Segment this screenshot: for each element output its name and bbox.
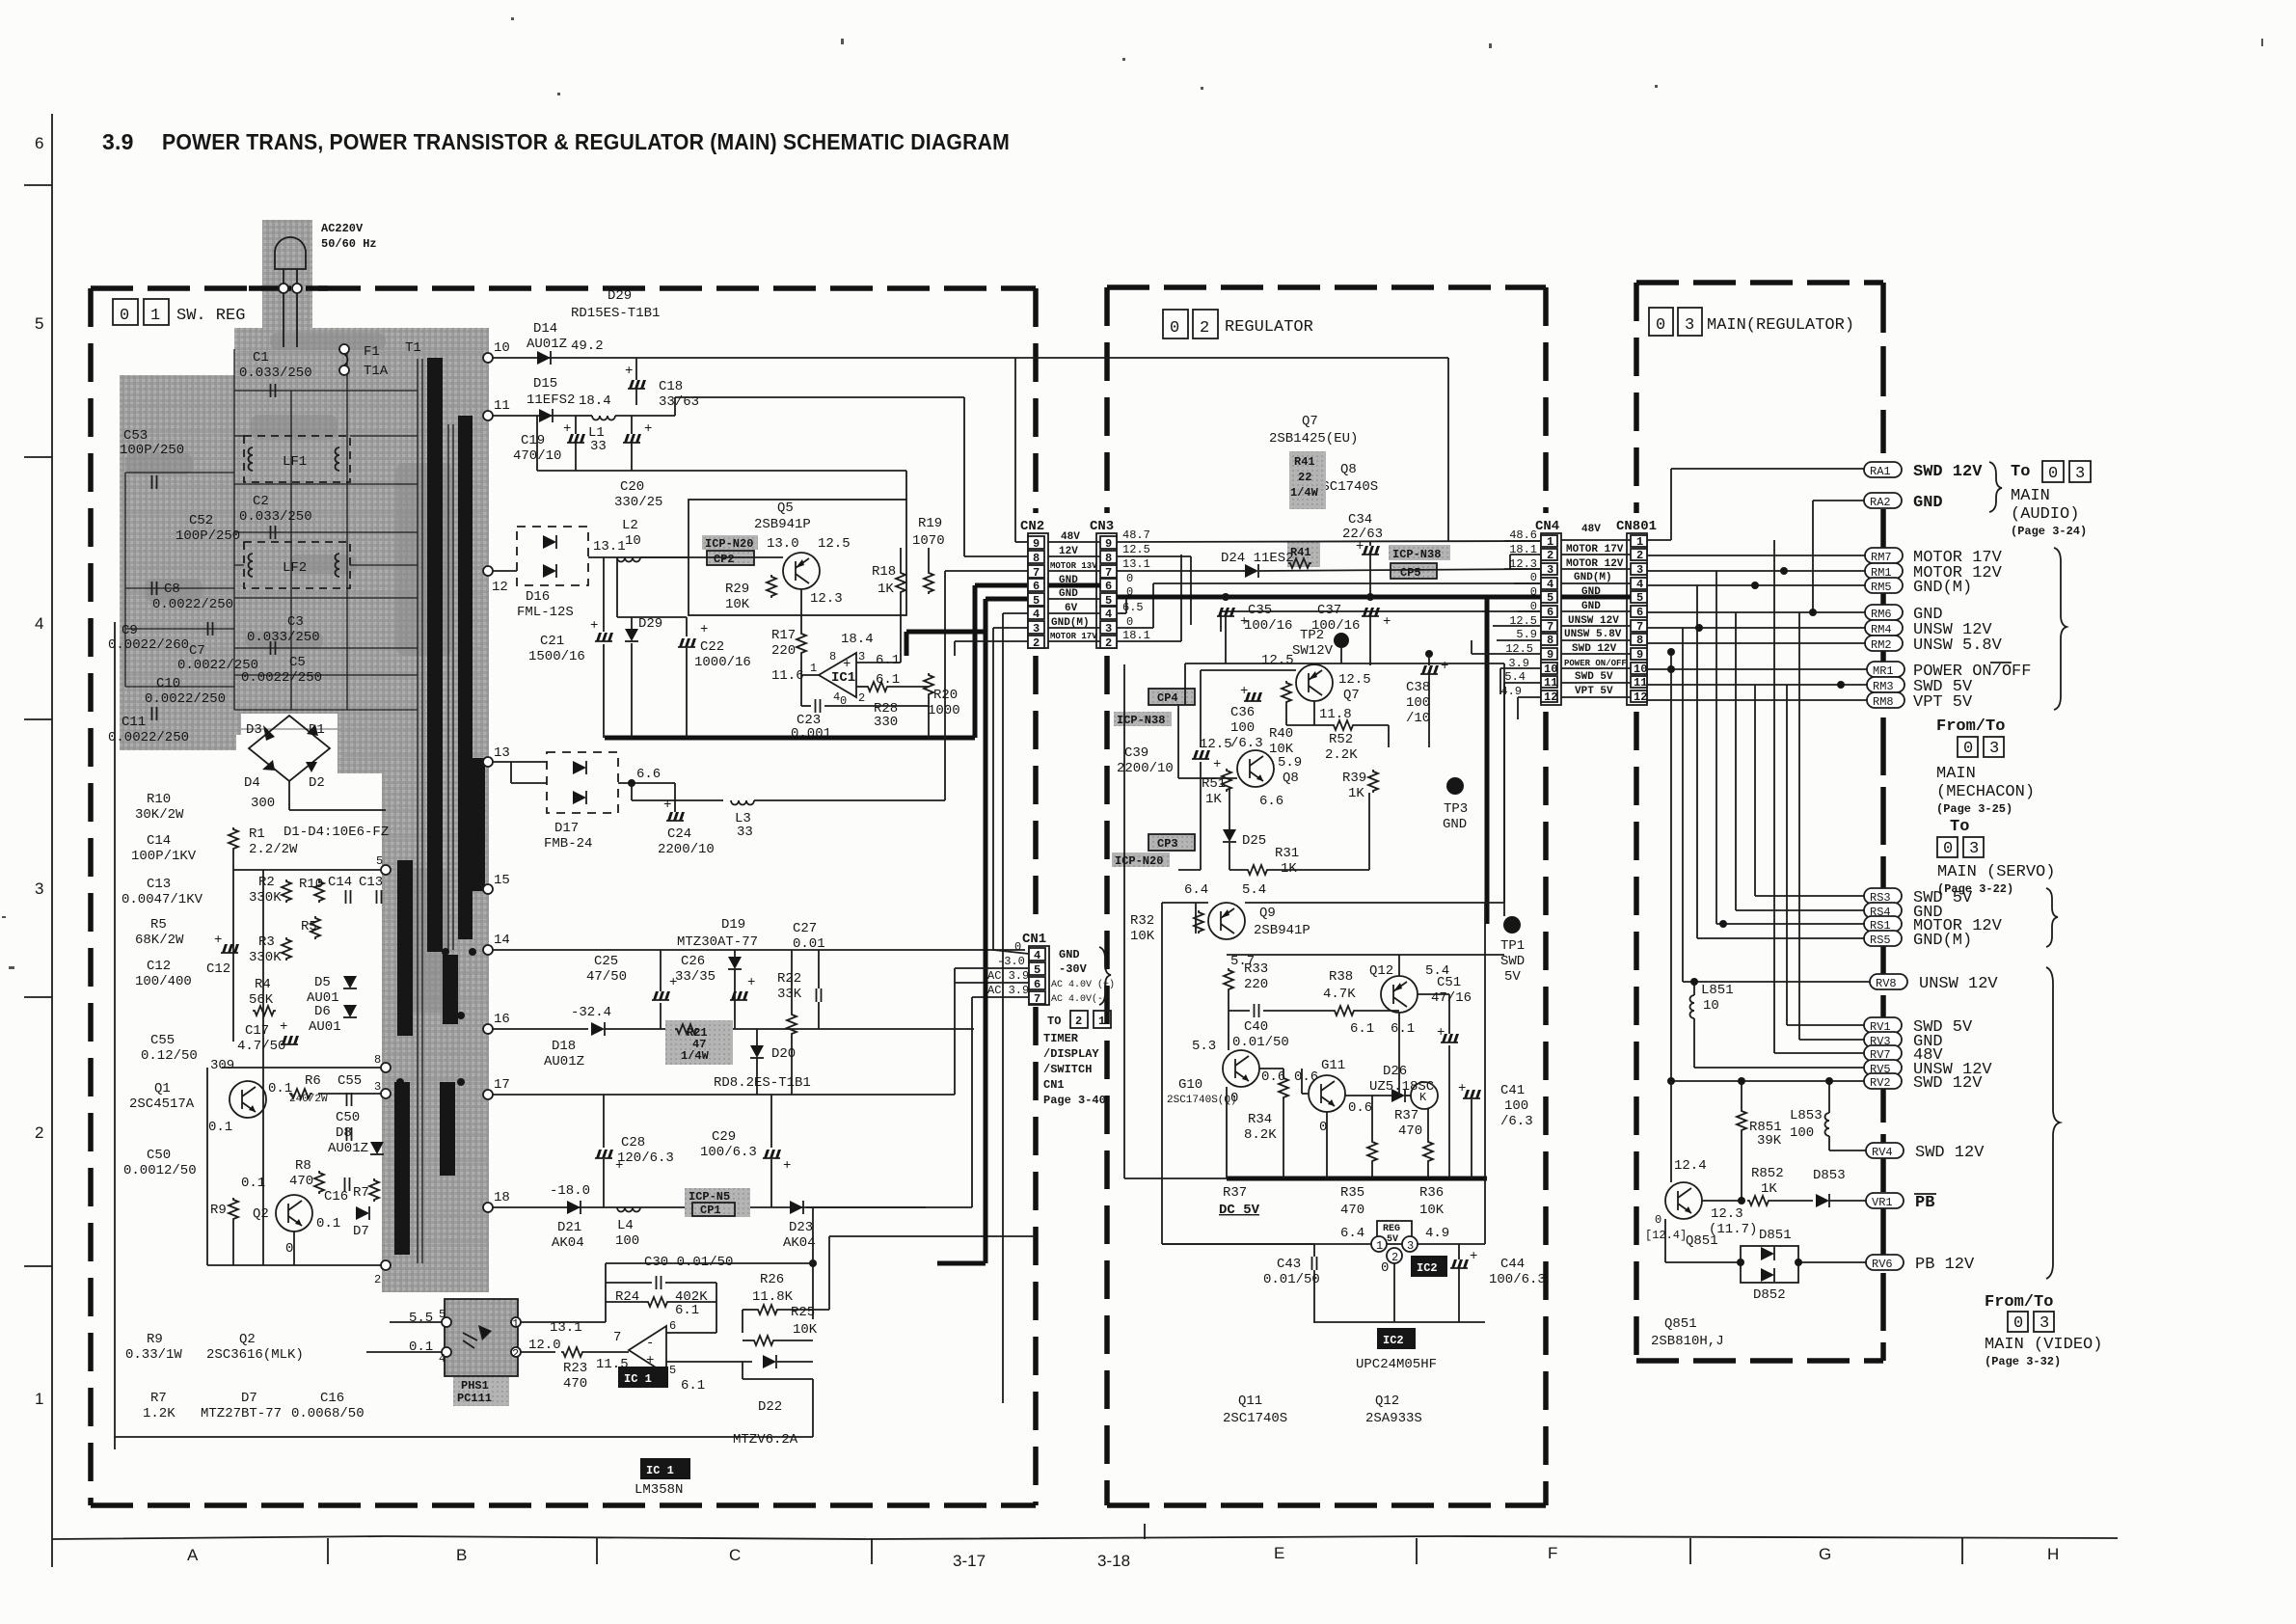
terminal RM5 bbox=[1865, 578, 1903, 593]
svg-text:-3.0: -3.0 bbox=[997, 955, 1025, 968]
svg-text:ICP-N5: ICP-N5 bbox=[689, 1190, 730, 1204]
svg-text:68K/2W: 68K/2W bbox=[135, 933, 184, 948]
IC 1 black tag bbox=[618, 1367, 668, 1388]
svg-text:D1: D1 bbox=[309, 722, 325, 738]
wires around C21 bbox=[603, 557, 605, 632]
svg-text:DC 5V: DC 5V bbox=[1219, 1203, 1260, 1218]
terminal RM2 bbox=[1865, 636, 1903, 651]
svg-text:6.4: 6.4 bbox=[1340, 1226, 1364, 1241]
secondary pin 11 bbox=[483, 411, 493, 420]
svg-text:R52: R52 bbox=[1329, 732, 1353, 747]
svg-text:0.01/50: 0.01/50 bbox=[1232, 1035, 1289, 1050]
svg-text:0: 0 bbox=[1126, 615, 1133, 629]
svg-text:2SA933S: 2SA933S bbox=[1365, 1411, 1422, 1426]
C24 2200/10 bbox=[666, 812, 685, 821]
svg-text:0: 0 bbox=[1381, 1260, 1389, 1276]
svg-text:2: 2 bbox=[1075, 1015, 1082, 1028]
R851 39K bbox=[1737, 1109, 1746, 1132]
terminal RS5 bbox=[1864, 931, 1902, 946]
svg-text:R31: R31 bbox=[1275, 846, 1299, 861]
svg-text:C40: C40 bbox=[1244, 1019, 1268, 1035]
LF2 line filter bbox=[244, 542, 350, 588]
svg-text:UNSW 5.8V: UNSW 5.8V bbox=[1913, 636, 2003, 655]
wire row11 drop bbox=[963, 397, 965, 556]
secondary pin 15 bbox=[483, 884, 493, 894]
C36 100/6.3 bbox=[1244, 692, 1262, 701]
svg-text:17: 17 bbox=[494, 1077, 510, 1093]
svg-text:2.2K: 2.2K bbox=[1325, 747, 1358, 763]
svg-text:5V: 5V bbox=[1504, 969, 1521, 985]
terminal MR1 bbox=[1867, 662, 1904, 677]
svg-text:Q2: Q2 bbox=[239, 1332, 256, 1347]
svg-text:C44: C44 bbox=[1500, 1257, 1525, 1272]
svg-text:REG: REG bbox=[1383, 1224, 1400, 1234]
svg-text:R9: R9 bbox=[147, 1332, 163, 1347]
svg-text:GND: GND bbox=[1913, 494, 1943, 512]
svg-text:3: 3 bbox=[374, 1080, 381, 1094]
svg-text:RM6: RM6 bbox=[1871, 608, 1892, 621]
svg-text:300: 300 bbox=[251, 796, 275, 811]
thick GND wires to CN2 bbox=[975, 583, 1028, 588]
wires Q851 bbox=[1670, 1081, 1672, 1182]
svg-text:UNSW 12V: UNSW 12V bbox=[1919, 975, 1998, 993]
svg-text:1/4W: 1/4W bbox=[681, 1049, 710, 1063]
svg-text:C13: C13 bbox=[359, 875, 383, 890]
svg-text:R37: R37 bbox=[1394, 1108, 1418, 1123]
svg-text:R852: R852 bbox=[1751, 1166, 1784, 1181]
svg-text:D7: D7 bbox=[241, 1391, 257, 1406]
svg-text:3.9: 3.9 bbox=[102, 129, 134, 154]
C17 4.7/50 bbox=[281, 1036, 299, 1044]
block02 top bus rows bbox=[1117, 541, 1541, 641]
brace RM group bbox=[2054, 548, 2066, 710]
svg-text:2SB810H,J: 2SB810H,J bbox=[1651, 1334, 1724, 1349]
brace RV group bbox=[2046, 967, 2060, 1279]
C55 capacitor bbox=[347, 1093, 352, 1106]
svg-text:12.5: 12.5 bbox=[1122, 543, 1150, 556]
svg-text:D2: D2 bbox=[309, 775, 325, 791]
svg-text:56K: 56K bbox=[249, 992, 274, 1008]
svg-text:LF1: LF1 bbox=[283, 454, 307, 470]
svg-text:-: - bbox=[646, 1336, 654, 1351]
wire MOTOR17 row bbox=[955, 640, 1028, 642]
svg-text:0: 0 bbox=[1170, 319, 1179, 338]
svg-text:6.4: 6.4 bbox=[1184, 882, 1208, 898]
svg-text:220: 220 bbox=[771, 643, 796, 659]
svg-text:L851: L851 bbox=[1701, 983, 1734, 998]
svg-text:2SC3616(MLK): 2SC3616(MLK) bbox=[206, 1347, 304, 1363]
svg-text:4: 4 bbox=[439, 1352, 446, 1366]
svg-text:G: G bbox=[1819, 1545, 1831, 1563]
svg-text:0.01/50: 0.01/50 bbox=[1263, 1272, 1320, 1287]
Q5 outline box wire bbox=[689, 500, 906, 615]
svg-text:7: 7 bbox=[1547, 620, 1553, 634]
opto coupler PHS1 PC111 bbox=[445, 1299, 518, 1376]
svg-text:30K/2W: 30K/2W bbox=[135, 807, 184, 823]
svg-text:0: 0 bbox=[1126, 572, 1133, 585]
bottom row wire 2 bbox=[207, 1264, 386, 1266]
svg-text:CP1: CP1 bbox=[700, 1204, 721, 1217]
svg-text:8: 8 bbox=[374, 1053, 381, 1067]
svg-text:CP4: CP4 bbox=[1157, 691, 1178, 705]
svg-text:6.1: 6.1 bbox=[675, 1303, 699, 1318]
svg-text:C52: C52 bbox=[189, 513, 213, 528]
svg-text:R29: R29 bbox=[725, 582, 749, 597]
svg-text:PB 12V: PB 12V bbox=[1915, 1256, 1975, 1274]
svg-text:2SC1740S: 2SC1740S bbox=[1223, 1411, 1287, 1426]
svg-text:10K: 10K bbox=[1419, 1203, 1445, 1218]
svg-text:5.4: 5.4 bbox=[1504, 670, 1526, 684]
C16 capacitor bbox=[345, 1177, 350, 1191]
transistor Q851 bbox=[1665, 1182, 1702, 1219]
svg-text:0: 0 bbox=[2048, 465, 2058, 483]
svg-text:3: 3 bbox=[1969, 840, 1979, 858]
left ruler tick 2/1 bbox=[24, 1265, 52, 1267]
svg-text:C8: C8 bbox=[164, 582, 180, 597]
svg-text:(MECHACON): (MECHACON) bbox=[1936, 783, 2035, 801]
svg-text:240/2W: 240/2W bbox=[289, 1094, 328, 1105]
feedback wire from row18 bbox=[806, 1206, 926, 1208]
svg-text:D3: D3 bbox=[246, 722, 262, 738]
R23 470 bbox=[561, 1347, 584, 1357]
R37 varistor bbox=[1411, 1082, 1438, 1109]
R3 330K bbox=[282, 937, 291, 961]
svg-text:+: + bbox=[1470, 1249, 1477, 1264]
svg-text:470: 470 bbox=[563, 1376, 587, 1392]
svg-text:12.0: 12.0 bbox=[528, 1338, 561, 1353]
svg-text:(AUDIO): (AUDIO) bbox=[2011, 505, 2079, 524]
net labels CN2-CN3 bbox=[1050, 531, 1097, 641]
svg-text:C37: C37 bbox=[1317, 603, 1341, 618]
R5 resistor bbox=[311, 916, 320, 939]
svg-text:220: 220 bbox=[1244, 977, 1268, 992]
svg-text:0.0022/260: 0.0022/260 bbox=[108, 637, 189, 653]
svg-text:D852: D852 bbox=[1753, 1287, 1786, 1303]
svg-text:TP1: TP1 bbox=[1500, 938, 1525, 954]
svg-text:0.0012/50: 0.0012/50 bbox=[123, 1163, 197, 1178]
svg-text:R7: R7 bbox=[353, 1185, 369, 1201]
svg-text:100/6.3: 100/6.3 bbox=[700, 1145, 757, 1160]
svg-text:MAIN (SERVO): MAIN (SERVO) bbox=[1937, 863, 2055, 881]
secondary pin 13 bbox=[483, 757, 493, 767]
D17 diode a bbox=[573, 761, 586, 774]
svg-text:48V: 48V bbox=[1581, 524, 1601, 535]
svg-text:1: 1 bbox=[1098, 1015, 1105, 1028]
svg-text:C7: C7 bbox=[189, 643, 205, 659]
svg-text:11: 11 bbox=[494, 398, 510, 414]
svg-text:5: 5 bbox=[439, 1308, 446, 1321]
brace RS group bbox=[2046, 888, 2058, 947]
transistor Q1 bbox=[230, 1081, 266, 1118]
terminal RM1 bbox=[1865, 563, 1903, 579]
svg-text:5: 5 bbox=[1636, 591, 1643, 605]
svg-text:D29: D29 bbox=[608, 288, 632, 304]
svg-text:PC111: PC111 bbox=[457, 1392, 492, 1405]
terminal RS4 bbox=[1864, 903, 1902, 918]
wire row18 bbox=[493, 1206, 972, 1208]
right side wire bundle verticals bbox=[1647, 469, 1870, 1081]
svg-text:MTZV6.2A: MTZV6.2A bbox=[733, 1432, 798, 1448]
D8 AU01Z bbox=[370, 1142, 384, 1154]
terminal RS3 bbox=[1864, 888, 1902, 904]
svg-text:1: 1 bbox=[1547, 535, 1553, 549]
svg-text:3: 3 bbox=[2075, 465, 2085, 483]
transistor Q10 bbox=[1223, 1050, 1259, 1087]
R34 8.2K bbox=[1279, 1076, 1288, 1099]
svg-text:1070: 1070 bbox=[912, 533, 945, 549]
svg-text:120/6.3: 120/6.3 bbox=[617, 1150, 674, 1166]
C12 capacitor bbox=[221, 944, 239, 953]
node row 15wire bbox=[233, 869, 386, 871]
svg-text:C1: C1 bbox=[253, 350, 269, 365]
svg-text:C13: C13 bbox=[147, 877, 171, 892]
svg-text:1K: 1K bbox=[1761, 1181, 1777, 1197]
transformer core bar B bbox=[458, 416, 473, 939]
bottom ruler tick A/B bbox=[327, 1538, 329, 1564]
halftone scan region: main slab bbox=[234, 328, 489, 735]
svg-text:Q7: Q7 bbox=[1343, 688, 1360, 703]
svg-text:1K: 1K bbox=[1205, 792, 1222, 807]
svg-text:IC2: IC2 bbox=[1417, 1261, 1438, 1275]
D25 zener bbox=[1223, 829, 1236, 842]
svg-text:C3: C3 bbox=[287, 614, 304, 630]
bottom bus regulator bbox=[1227, 1177, 1487, 1181]
svg-text:AU01Z: AU01Z bbox=[328, 1141, 368, 1156]
svg-text:C14: C14 bbox=[328, 875, 352, 890]
svg-text:C19: C19 bbox=[521, 433, 545, 448]
R7 resistor bbox=[369, 1178, 379, 1202]
wire row11 continues bbox=[674, 397, 676, 416]
svg-text:R18: R18 bbox=[872, 564, 896, 580]
svg-text:18.4: 18.4 bbox=[841, 632, 874, 647]
svg-text:16: 16 bbox=[494, 1012, 510, 1027]
wire row13 bbox=[493, 761, 547, 763]
svg-text:/6.3: /6.3 bbox=[1500, 1114, 1533, 1129]
svg-text:D19: D19 bbox=[721, 917, 745, 933]
svg-text:TIMER: TIMER bbox=[1043, 1032, 1079, 1045]
svg-text:100/400: 100/400 bbox=[135, 974, 192, 989]
svg-text:CN801: CN801 bbox=[1616, 519, 1657, 534]
thick bottom bus of SMPS bbox=[605, 736, 975, 741]
svg-text:R51: R51 bbox=[1202, 776, 1226, 792]
svg-text:7: 7 bbox=[613, 1330, 621, 1345]
svg-text:MAIN(REGULATOR): MAIN(REGULATOR) bbox=[1707, 316, 1854, 335]
svg-text:4.7K: 4.7K bbox=[1323, 987, 1356, 1002]
svg-text:6: 6 bbox=[1033, 580, 1040, 593]
svg-text:E: E bbox=[1274, 1544, 1284, 1562]
svg-text:470: 470 bbox=[1398, 1123, 1422, 1139]
svg-text:47/50: 47/50 bbox=[586, 969, 627, 985]
svg-text:F1: F1 bbox=[364, 344, 380, 360]
diode D1 bbox=[307, 724, 318, 736]
base row q8 bbox=[1178, 777, 1237, 779]
svg-text:RM5: RM5 bbox=[1871, 581, 1892, 594]
svg-text:5.5: 5.5 bbox=[409, 1311, 433, 1326]
svg-text:D17: D17 bbox=[554, 821, 579, 836]
svg-text:Q851: Q851 bbox=[1664, 1316, 1697, 1332]
svg-text:FML-12S: FML-12S bbox=[517, 605, 574, 620]
svg-text:4: 4 bbox=[1105, 608, 1112, 621]
left ruler tick 5/4 bbox=[24, 456, 52, 458]
transistor Q12 bbox=[1381, 976, 1418, 1013]
C5 capacitor bbox=[271, 641, 276, 655]
svg-text:+: + bbox=[590, 618, 598, 634]
svg-text:0.6: 0.6 bbox=[1348, 1100, 1372, 1116]
svg-text:1K: 1K bbox=[1348, 786, 1364, 801]
block 03 tag box 3 bbox=[1678, 308, 1702, 336]
R31 1K bbox=[1246, 865, 1269, 875]
svg-text:2SB941P: 2SB941P bbox=[1254, 923, 1310, 938]
brace To 03 MAIN AUDIO bbox=[1989, 462, 2002, 512]
svg-text:D4: D4 bbox=[244, 775, 260, 791]
svg-text:12.3: 12.3 bbox=[1711, 1206, 1743, 1222]
svg-text:TO: TO bbox=[1047, 1015, 1061, 1028]
svg-text:14: 14 bbox=[494, 933, 510, 948]
svg-text:10: 10 bbox=[1544, 663, 1557, 676]
svg-text:R25: R25 bbox=[791, 1305, 815, 1320]
svg-text:100/16: 100/16 bbox=[1244, 618, 1292, 634]
svg-text:R5: R5 bbox=[301, 919, 317, 934]
R8 470 bbox=[314, 1171, 324, 1194]
svg-text:MOTOR 17V: MOTOR 17V bbox=[1050, 632, 1097, 641]
svg-text:D21: D21 bbox=[557, 1220, 581, 1235]
svg-text:F: F bbox=[1548, 1544, 1557, 1562]
svg-text:+: + bbox=[563, 421, 571, 437]
svg-text:0: 0 bbox=[1656, 316, 1665, 335]
svg-text:0.12/50: 0.12/50 bbox=[141, 1048, 198, 1064]
svg-text:3: 3 bbox=[1033, 622, 1040, 636]
svg-text:R4: R4 bbox=[255, 977, 271, 992]
block 03 dashed border bbox=[1636, 280, 1883, 285]
C43 0.01/50 bbox=[1312, 1257, 1317, 1270]
svg-text:9: 9 bbox=[1033, 537, 1040, 551]
svg-text:RM3: RM3 bbox=[1873, 680, 1894, 693]
svg-text:4: 4 bbox=[1547, 578, 1553, 591]
svg-text:C55: C55 bbox=[338, 1073, 362, 1089]
wire CN1 pin4 row bbox=[993, 950, 1029, 954]
svg-text:C22: C22 bbox=[700, 639, 724, 655]
svg-text:R36: R36 bbox=[1419, 1185, 1444, 1201]
svg-text:0.1: 0.1 bbox=[208, 1120, 232, 1135]
left column wires block02 bbox=[1123, 664, 1125, 1178]
svg-text:/10: /10 bbox=[1406, 711, 1430, 726]
svg-text:1K: 1K bbox=[1281, 861, 1297, 877]
svg-text:D29: D29 bbox=[638, 616, 662, 632]
svg-text:IC 1: IC 1 bbox=[624, 1372, 652, 1386]
svg-text:13.1: 13.1 bbox=[593, 539, 626, 555]
svg-text:0.033/250: 0.033/250 bbox=[247, 630, 320, 645]
wire slab vertical column a bbox=[233, 349, 235, 710]
svg-text:0.0047/1KV: 0.0047/1KV bbox=[122, 892, 203, 907]
svg-text:0: 0 bbox=[285, 1241, 293, 1257]
svg-text:TP2: TP2 bbox=[1300, 628, 1324, 643]
svg-text:13.1: 13.1 bbox=[550, 1320, 582, 1336]
wires q11 row bbox=[1345, 1095, 1391, 1096]
svg-text:470: 470 bbox=[289, 1174, 313, 1189]
inductor L4 bbox=[617, 1207, 640, 1212]
svg-text:RM2: RM2 bbox=[1871, 638, 1892, 652]
svg-text:AC 3.9: AC 3.9 bbox=[987, 969, 1029, 983]
svg-text:A: A bbox=[187, 1546, 199, 1564]
svg-text:CN1: CN1 bbox=[1043, 1078, 1065, 1092]
svg-text:6: 6 bbox=[669, 1319, 676, 1333]
svg-text:330: 330 bbox=[874, 715, 898, 730]
svg-text:C26: C26 bbox=[681, 954, 705, 969]
svg-text:100: 100 bbox=[615, 1233, 639, 1249]
svg-text:0: 0 bbox=[120, 307, 129, 325]
svg-text:C12: C12 bbox=[147, 959, 171, 974]
svg-text:R32: R32 bbox=[1130, 913, 1154, 929]
svg-text:12.4: 12.4 bbox=[1674, 1158, 1707, 1174]
svg-text:C16: C16 bbox=[320, 1391, 344, 1406]
svg-text:RV4: RV4 bbox=[1872, 1146, 1893, 1159]
block 01 tag box 1 bbox=[144, 299, 169, 325]
transistor Q5 bbox=[783, 553, 820, 589]
svg-text:1500/16: 1500/16 bbox=[528, 649, 585, 664]
svg-text:MTZ27BT-77: MTZ27BT-77 bbox=[201, 1406, 282, 1421]
C23 0.001 bbox=[816, 699, 821, 713]
svg-text:3-17: 3-17 bbox=[953, 1552, 986, 1570]
svg-text:R17: R17 bbox=[771, 628, 796, 643]
svg-text:1: 1 bbox=[150, 307, 160, 325]
D16 diode a bbox=[543, 535, 556, 549]
svg-text:D23: D23 bbox=[789, 1220, 813, 1235]
svg-text:MAIN: MAIN bbox=[1936, 765, 1976, 783]
svg-text:+: + bbox=[1441, 659, 1448, 674]
svg-text:MAIN (VIDEO): MAIN (VIDEO) bbox=[1985, 1336, 2102, 1354]
svg-text:RM4: RM4 bbox=[1871, 623, 1892, 636]
terminal RS1 bbox=[1864, 916, 1902, 932]
svg-text:UNSW 5.8V: UNSW 5.8V bbox=[1564, 629, 1622, 640]
svg-text:C18: C18 bbox=[659, 379, 683, 394]
svg-text:Page 3-40: Page 3-40 bbox=[1043, 1094, 1106, 1107]
svg-text:8: 8 bbox=[1636, 634, 1643, 647]
svg-text:5.9: 5.9 bbox=[1278, 755, 1302, 771]
svg-text:C30 0.01/50: C30 0.01/50 bbox=[644, 1255, 733, 1270]
wires D851 group bbox=[1664, 1219, 1666, 1262]
svg-text:MOTOR 13V: MOTOR 13V bbox=[1050, 561, 1097, 571]
svg-text:+: + bbox=[625, 364, 633, 379]
halftone scan region: left slab bbox=[120, 375, 236, 750]
svg-text:VR1: VR1 bbox=[1872, 1196, 1893, 1209]
svg-text:6.1: 6.1 bbox=[681, 1378, 705, 1394]
svg-text:MAIN: MAIN bbox=[2011, 487, 2050, 505]
svg-text:C21: C21 bbox=[540, 634, 564, 649]
terminal RM6 bbox=[1865, 605, 1903, 620]
svg-text:+: + bbox=[783, 1158, 791, 1174]
svg-text:0.01: 0.01 bbox=[793, 936, 825, 952]
svg-text:AU01Z: AU01Z bbox=[544, 1054, 584, 1069]
halftone scan region: slab step bbox=[338, 735, 489, 773]
terminal RV7 bbox=[1864, 1045, 1902, 1061]
svg-text:39K: 39K bbox=[1757, 1133, 1782, 1149]
svg-text:0.033/250: 0.033/250 bbox=[239, 509, 312, 525]
svg-text:5: 5 bbox=[35, 314, 43, 333]
block 03 tag box 0 bbox=[1649, 308, 1673, 336]
svg-text:C12: C12 bbox=[206, 961, 230, 977]
svg-text:+: + bbox=[747, 975, 755, 990]
reg row wire bbox=[1162, 1243, 1371, 1245]
D20 zener bbox=[750, 1045, 764, 1058]
svg-text:R7: R7 bbox=[150, 1391, 167, 1406]
wire row11 bbox=[493, 415, 579, 417]
svg-text:GND(M): GND(M) bbox=[1913, 579, 1972, 597]
svg-text:5: 5 bbox=[1034, 963, 1040, 977]
svg-text:18: 18 bbox=[494, 1190, 510, 1205]
svg-text:18.4: 18.4 bbox=[579, 393, 611, 409]
R35 470 resistor bbox=[1367, 1140, 1377, 1163]
svg-text:POWER ON/OFF: POWER ON/OFF bbox=[1564, 659, 1627, 668]
